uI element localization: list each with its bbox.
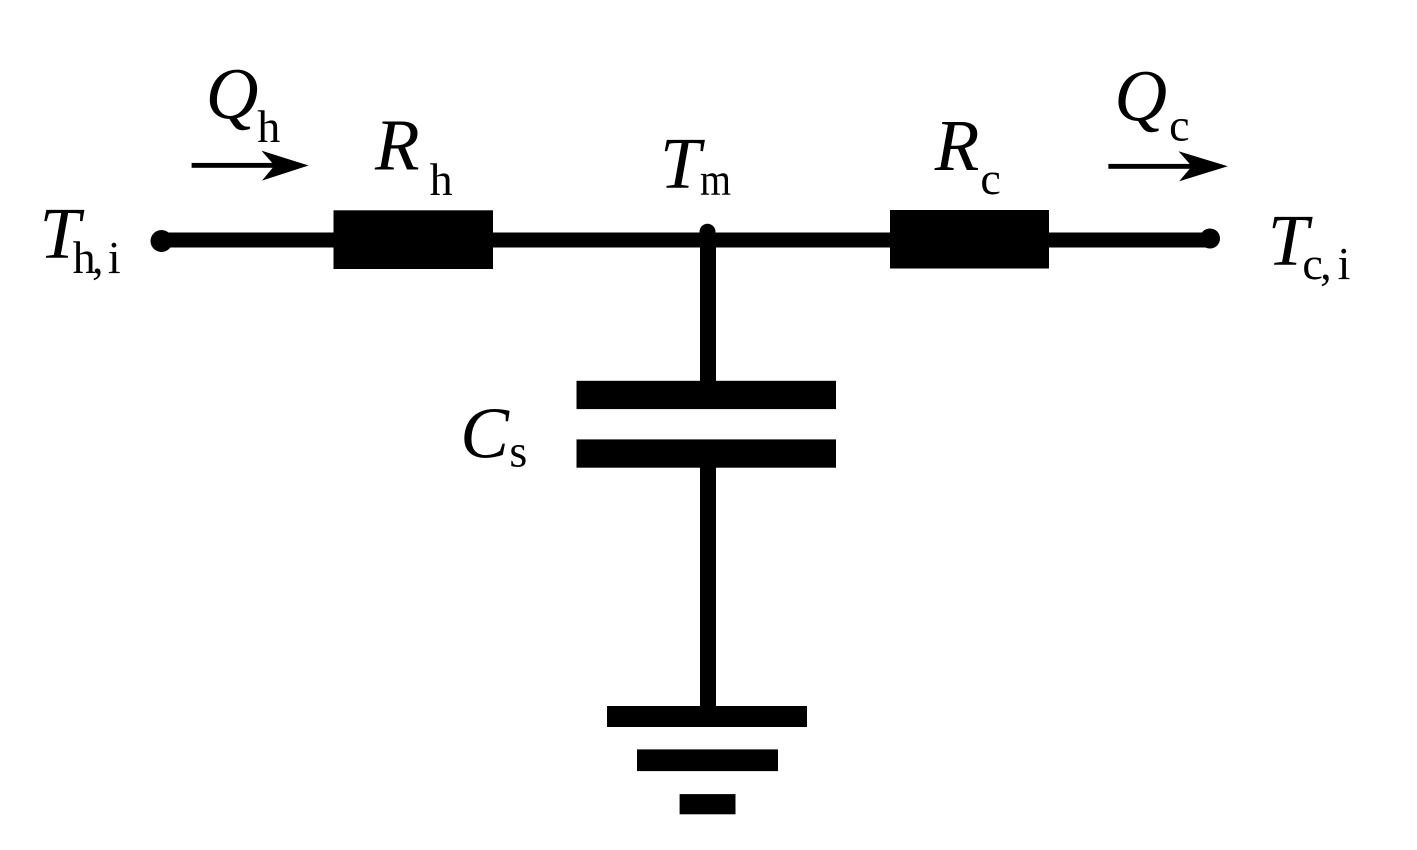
svg-text:Q: Q	[1114, 56, 1167, 137]
svg-text:Q: Q	[206, 53, 259, 134]
svg-text:c: c	[980, 153, 1000, 204]
svg-text:m: m	[700, 154, 731, 205]
svg-text:h: h	[430, 154, 453, 205]
svg-text:h: h	[257, 101, 280, 152]
svg-text:c: c	[1169, 100, 1189, 151]
svg-text:h, i: h, i	[73, 232, 121, 283]
svg-text:R: R	[934, 105, 980, 186]
svg-text:T: T	[660, 123, 705, 204]
svg-text:C: C	[460, 392, 510, 473]
svg-text:s: s	[509, 426, 527, 477]
svg-text:R: R	[374, 105, 420, 186]
svg-text:c, i: c, i	[1302, 238, 1350, 289]
